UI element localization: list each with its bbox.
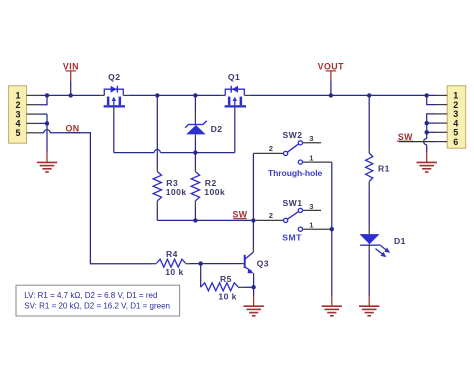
wire R1 to D1 (368, 181, 370, 234)
svg-text:5: 5 (16, 128, 21, 138)
VOUT net label (318, 61, 344, 81)
Q2 side pin stubs (99, 94, 129, 96)
svg-text:2: 2 (269, 144, 274, 153)
node junction VIN (69, 93, 73, 97)
wire X2 pin4 stub join (427, 122, 437, 124)
ground GND4 (LED) (359, 306, 379, 316)
connector X1 (left, 5-pin) (9, 86, 27, 143)
wire R3 bottom lead (156, 201, 158, 221)
resistor R1 (366, 153, 373, 181)
svg-text:10 k: 10 k (218, 292, 237, 302)
value 10 k (R4) (165, 267, 184, 277)
svg-text:SV: R1 = 20 kΩ, D2 = 16.2 V, D: SV: R1 = 20 kΩ, D2 = 16.2 V, D1 = green (24, 301, 170, 310)
connector X2 pin stubs (437, 95, 447, 141)
wire R4 to Q3 base (191, 263, 239, 265)
ground GND1 (left connector) (37, 162, 57, 172)
Q1 side pin stubs (220, 94, 250, 96)
node junction R3 top (155, 93, 159, 97)
svg-text:3: 3 (309, 202, 314, 211)
node junction R4 / R5 (199, 261, 203, 265)
label R4 (166, 249, 178, 259)
wire VOUT lead (330, 81, 332, 95)
ON net label (65, 124, 80, 134)
wire gate rail with hop over R3 (114, 150, 235, 153)
wire R1 top lead (368, 95, 370, 153)
node junction pin4 (45, 121, 49, 125)
node junction X2 pin5 (425, 130, 429, 134)
node junction SW1 pin1 (330, 227, 334, 231)
wire X2 pin3/4/5 riser with hop (424, 114, 437, 162)
switch SW1 (SMT) (284, 208, 332, 231)
wire R4 junction down to R5 (200, 264, 202, 288)
svg-text:D2: D2 (211, 124, 223, 134)
SW2 pin number 3 (309, 134, 314, 143)
wire Q2 gate down (113, 108, 115, 153)
transistor Q2 (P-MOSFET) (104, 86, 125, 108)
svg-text:R1: R1 (378, 164, 390, 174)
wire SW rail (157, 219, 253, 221)
wire SW2 pin2 riser down to Q3 (252, 153, 254, 252)
label SW1 (283, 198, 303, 208)
node junction VOUT (329, 93, 333, 97)
SW1 pin number 3 (309, 202, 314, 211)
SW1 pin number 2 (269, 211, 274, 220)
note box (16, 285, 180, 316)
transistor Q3 (NPN) (244, 252, 254, 273)
svg-text:SW: SW (398, 132, 413, 142)
svg-text:100k: 100k (166, 187, 187, 197)
wire switch pin1 riser (331, 162, 333, 296)
label R3 (166, 178, 178, 188)
label Q1 (228, 72, 240, 82)
wire R2 bottom lead (194, 201, 196, 221)
node junction pin1/pin2 (45, 93, 49, 97)
zener diode D2 (185, 121, 207, 135)
svg-text:D1: D1 (394, 236, 406, 246)
wire R2 top lead (194, 153, 196, 172)
svg-text:3: 3 (309, 134, 314, 143)
resistor R2 (191, 172, 199, 201)
svg-text:100k: 100k (204, 187, 225, 197)
label Q3 (257, 259, 269, 269)
value 100k (R3) (166, 187, 187, 197)
wire pin3 riser (40, 113, 47, 115)
svg-text:1: 1 (309, 153, 314, 162)
wire pin3/pin4 down to ground (46, 114, 48, 162)
wire D2 bottom lead (194, 134, 196, 152)
label SW2 (283, 130, 303, 140)
node junction X2 pin1 (425, 93, 429, 97)
svg-text:1: 1 (309, 221, 314, 230)
svg-text:10 k: 10 k (165, 267, 184, 277)
connector X1 pin stubs (27, 95, 41, 132)
SW1 pin2 line (256, 219, 284, 221)
svg-text:R5: R5 (220, 274, 232, 284)
svg-text:Q2: Q2 (108, 72, 120, 82)
wire X2 pin5 stub join (427, 131, 437, 133)
SW net label (middle) (232, 210, 247, 220)
VIN net label (63, 61, 79, 81)
node junction R1 top (367, 93, 371, 97)
resistor R5 (201, 283, 238, 291)
connector X2 pin numbers 1-6 (453, 91, 458, 147)
SW2 pin number 1 (309, 153, 314, 162)
SW net label (right) (397, 132, 414, 142)
svg-text:VOUT: VOUT (318, 61, 344, 71)
svg-text:2: 2 (269, 211, 274, 220)
wire Q3 emitter down (253, 273, 255, 287)
node junction X2 pin4 (425, 121, 429, 125)
wire to GND5 (253, 287, 255, 306)
note text line 1 (24, 291, 157, 300)
wire pin4 join (40, 122, 47, 124)
svg-text:SMT: SMT (282, 233, 302, 243)
wire Q1 gate down (234, 108, 236, 153)
wire to GND3 (331, 296, 333, 306)
svg-text:6: 6 (453, 137, 458, 147)
ground GND3 (switch) (322, 306, 342, 316)
label R5 (220, 274, 232, 284)
wire SW to X2 pin6 (399, 141, 437, 143)
wire R5 to Q3 emitter (244, 286, 254, 288)
svg-text:VIN: VIN (63, 61, 79, 71)
node junction Q3 emitter / R5 (251, 285, 255, 289)
SW2 pin number 2 (269, 144, 274, 153)
label R1 (378, 164, 390, 174)
switch SW2 (Through-hole) (284, 141, 332, 165)
resistor R4 (157, 259, 186, 267)
label D2 (211, 124, 223, 134)
svg-text:Through-hole: Through-hole (268, 168, 322, 178)
SW1 pin number 1 (309, 221, 314, 230)
R5 right pin stub (238, 286, 244, 288)
wire D2 top lead (194, 95, 196, 125)
node junction R2 / SW rail (193, 218, 197, 222)
svg-text:LV: R1 = 4.7 kΩ, D2 = 6.8 V, D: LV: R1 = 4.7 kΩ, D2 = 6.8 V, D1 = red (24, 291, 157, 300)
wire pin2 riser (40, 95, 47, 104)
connector X1 pin numbers 1-5 (16, 91, 21, 138)
wire VIN lead (70, 81, 72, 95)
wire main rail Q2-Q1 (129, 94, 220, 96)
R4 right pin stub (186, 263, 191, 265)
svg-text:SW2: SW2 (283, 130, 303, 140)
svg-text:Q1: Q1 (228, 72, 240, 82)
wire ON from pin5 with hop (40, 130, 152, 264)
node junction gate rail / D2 (193, 150, 197, 154)
wire X2 pin2 riser (427, 95, 437, 104)
label D1 (394, 236, 406, 246)
wire R3 top lead (156, 95, 158, 171)
resistor R3 (153, 172, 161, 201)
value 10 k (R5) (218, 292, 237, 302)
value Through-hole (SW2) (268, 168, 322, 178)
node junction SW rail / switch riser (251, 218, 255, 222)
node junction D2 top (193, 93, 197, 97)
R4 left pin stub (152, 263, 157, 265)
svg-text:Q3: Q3 (257, 259, 269, 269)
value 100k (R2) (204, 187, 225, 197)
note text line 2 (24, 301, 170, 310)
wire main rail right (250, 94, 437, 96)
ground GND5 (Q3 emitter) (244, 306, 264, 316)
Q3 base pin stub (239, 263, 244, 265)
svg-text:SW1: SW1 (283, 198, 303, 208)
transistor Q1 (P-MOSFET) (225, 86, 246, 108)
svg-text:ON: ON (65, 124, 79, 134)
value SMT (SW1) (282, 233, 302, 243)
LED D1 (360, 234, 391, 257)
connector X2 (right, 6-pin) (447, 86, 466, 149)
label R2 (205, 178, 217, 188)
ground GND2 (right connector) (417, 162, 437, 172)
wire pin1 to VIN junction (40, 94, 99, 96)
wire D1 to GND4 (368, 244, 370, 306)
SW2 pin2 line (253, 152, 283, 154)
svg-text:R4: R4 (166, 249, 178, 259)
label Q2 (108, 72, 120, 82)
